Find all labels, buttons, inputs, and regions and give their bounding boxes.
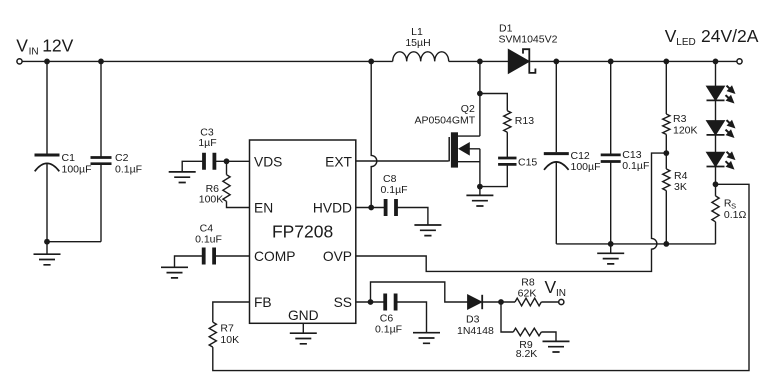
- LED D4 (top): [707, 83, 739, 107]
- svg-text:10K: 10K: [220, 334, 239, 346]
- wire: C1 bottom lead: [46, 164, 48, 242]
- svg-text:0.1µF: 0.1µF: [381, 184, 408, 196]
- terminal VLED output: [737, 59, 742, 64]
- wire: Rs top to right edge down to bottom rail: [213, 184, 749, 370]
- svg-text:8.2K: 8.2K: [516, 348, 538, 360]
- capacitor C3: [204, 153, 214, 170]
- wire: C13 bottom lead: [610, 162, 612, 244]
- wire: R7 to FB pin: [213, 302, 250, 322]
- inductor L1: [393, 52, 449, 62]
- wire: R13 to C15: [506, 132, 508, 158]
- svg-text:0.1µF: 0.1µF: [622, 160, 649, 172]
- resistor R4: [663, 169, 670, 191]
- ground (chip GND): [290, 333, 317, 344]
- svg-text:3K: 3K: [674, 181, 687, 193]
- wire: C4 to COMP pin: [214, 255, 249, 257]
- resistor R8: [515, 298, 541, 306]
- label C13 0.1µF: [622, 149, 649, 172]
- svg-text:1N4148: 1N4148: [457, 325, 494, 337]
- junction ground bus R4: [663, 241, 669, 247]
- wire: C12 bottom lead: [555, 162, 557, 244]
- ground (R9): [543, 341, 570, 352]
- svg-text:0.1µF: 0.1µF: [115, 163, 142, 175]
- svg-text:FP7208: FP7208: [272, 222, 333, 242]
- wire: VIN top rail to L1: [22, 60, 393, 62]
- wire: C6 to ground: [396, 302, 427, 333]
- wire: C3 to VDS pin: [214, 160, 249, 162]
- pin VDS: [254, 154, 282, 169]
- svg-text:SS: SS: [334, 295, 352, 310]
- svg-text:120K: 120K: [673, 125, 698, 137]
- label C6 0.1µF: [375, 312, 402, 335]
- wire: LED string: [715, 61, 717, 184]
- LED D5 (middle): [707, 117, 739, 141]
- capacitor C4: [204, 248, 214, 265]
- wire: GND pin lead: [302, 323, 304, 333]
- svg-text:L1: L1: [411, 26, 423, 38]
- terminal VIN input: [17, 59, 22, 64]
- wire: D3 to R8 node: [482, 301, 515, 303]
- wire: C1 top lead: [46, 61, 48, 153]
- terminal VIN (dimming input): [559, 299, 564, 304]
- resistor R7: [209, 322, 216, 347]
- svg-text:AP0504GMT: AP0504GMT: [414, 114, 475, 126]
- wire: L1 to D1 anode: [449, 60, 509, 62]
- wire: R8 to VIN terminal: [541, 301, 558, 303]
- svg-text:EXT: EXT: [325, 154, 352, 169]
- svg-text:0.1uF: 0.1uF: [195, 233, 222, 245]
- svg-text:C13: C13: [622, 149, 641, 161]
- junction LED cathode / Rs top: [713, 181, 719, 187]
- wire: C2 bottom lead: [100, 164, 102, 242]
- wire: R9 to ground: [541, 332, 556, 341]
- LED D6 (bottom): [707, 149, 739, 173]
- junction C2 top: [98, 59, 104, 65]
- svg-text:C15: C15: [518, 156, 537, 168]
- label R4 3K: [674, 170, 688, 193]
- wire: Rs bottom lead: [715, 222, 717, 244]
- capacitor C15: [498, 158, 516, 164]
- junction HVDD node: [368, 205, 374, 211]
- svg-text:R7: R7: [220, 323, 234, 335]
- junction C13 top: [608, 59, 614, 65]
- svg-text:R4: R4: [674, 170, 688, 182]
- ground (C4): [161, 267, 188, 278]
- ground (C6): [413, 333, 440, 344]
- diode D1 (schottky): [508, 49, 535, 73]
- wire: R8 node down to R9: [501, 302, 513, 332]
- pin EXT: [325, 154, 352, 169]
- label VIN small: [545, 277, 567, 299]
- junction input ground: [44, 239, 50, 245]
- svg-text:100K: 100K: [199, 194, 224, 206]
- ground (output): [597, 244, 624, 264]
- label C15: [518, 156, 537, 168]
- svg-text:100µF: 100µF: [62, 163, 92, 175]
- resistor Rs: [712, 196, 719, 222]
- wire: C3 to ground: [182, 161, 204, 172]
- svg-text:D3: D3: [466, 314, 480, 326]
- svg-text:V: V: [16, 36, 28, 56]
- wire: C8 to ground: [396, 208, 428, 226]
- wire: drain tap to R13: [480, 94, 507, 111]
- wire: C1-C2 ground link: [47, 241, 101, 243]
- junction Q2 source node: [477, 184, 483, 190]
- svg-text:IN: IN: [29, 47, 39, 58]
- label R9 8.2K: [516, 339, 538, 360]
- svg-text:OVP: OVP: [323, 249, 352, 264]
- svg-text:EN: EN: [254, 201, 273, 216]
- label R8 62K: [518, 276, 537, 299]
- transistor Q2 AP0504GMT: [449, 132, 480, 167]
- label D1 SVM1045V2: [499, 22, 558, 45]
- junction VDS node: [224, 158, 230, 164]
- pin COMP: [254, 249, 295, 264]
- wire: SS bypass route over C6: [371, 282, 468, 302]
- ground (C8): [414, 225, 441, 236]
- svg-text:V: V: [545, 277, 557, 297]
- wire: HVDD vertical with hop over EXT: [371, 61, 377, 207]
- label C2 0.1µF: [115, 152, 142, 175]
- wire: C15 to source node: [480, 165, 507, 187]
- pin SS: [334, 295, 352, 310]
- wire: SS pin to C6: [356, 301, 386, 303]
- svg-text:Q2: Q2: [461, 103, 475, 115]
- capacitor C2: [91, 158, 112, 164]
- ground (Q2 source): [466, 195, 493, 206]
- label R6 100K: [199, 183, 224, 206]
- wire: source ground stem: [479, 187, 481, 196]
- svg-text:C2: C2: [115, 152, 129, 164]
- label L1 15µH: [405, 26, 430, 49]
- junction R3 top: [663, 59, 669, 65]
- svg-text:1µF: 1µF: [198, 137, 216, 149]
- diode D3: [468, 295, 483, 309]
- pin HVDD: [313, 201, 352, 216]
- capacitor C12: [544, 154, 569, 170]
- label VIN 12V: [16, 36, 73, 58]
- resistor R6: [223, 175, 230, 202]
- junction SS node: [368, 299, 374, 305]
- label C12 100µF: [571, 150, 601, 173]
- svg-text:LED: LED: [676, 37, 695, 48]
- svg-text:V: V: [665, 26, 677, 46]
- label R13: [515, 115, 534, 127]
- label R7 10K: [220, 323, 239, 346]
- svg-text:GND: GND: [288, 308, 319, 323]
- svg-text:C12: C12: [571, 150, 590, 162]
- junction C12 top: [553, 59, 559, 65]
- wire: HVDD pin to C8: [356, 207, 386, 209]
- pin EN: [254, 201, 273, 216]
- svg-text:IN: IN: [556, 288, 566, 299]
- svg-text:100µF: 100µF: [571, 161, 601, 173]
- wire: Q2 drain to rail: [479, 61, 481, 136]
- svg-text:FB: FB: [254, 295, 272, 310]
- wire: C13 top lead: [610, 61, 612, 155]
- wire: D1 cathode to output terminal: [530, 60, 737, 62]
- label D3 1N4148: [457, 314, 494, 338]
- wire: Rs top lead: [715, 184, 717, 196]
- svg-text:R13: R13: [515, 115, 534, 127]
- svg-text:0.1µF: 0.1µF: [375, 323, 402, 335]
- svg-text:SVM1045V2: SVM1045V2: [499, 33, 558, 45]
- capacitor C6: [385, 294, 395, 311]
- junction ground bus C13: [608, 241, 614, 247]
- svg-text:VDS: VDS: [254, 154, 282, 169]
- wire: VDS node to R6: [226, 161, 228, 174]
- junction HVDD rail tap: [368, 59, 374, 65]
- junction LED string top: [713, 59, 719, 65]
- svg-text:R8: R8: [521, 276, 535, 288]
- pin GND: [288, 308, 319, 323]
- svg-text:62K: 62K: [518, 288, 537, 300]
- svg-text:15µH: 15µH: [405, 37, 430, 49]
- label VLED 24V/2A: [665, 26, 759, 48]
- label R3 120K: [673, 113, 698, 136]
- junction drain R13 tap: [477, 91, 483, 97]
- svg-text:HVDD: HVDD: [313, 201, 352, 216]
- wire: output ground bus: [556, 243, 715, 245]
- svg-text:12V: 12V: [42, 36, 73, 56]
- label C1 100µF: [62, 152, 92, 175]
- svg-text:R3: R3: [673, 113, 687, 125]
- svg-text:0.1Ω: 0.1Ω: [724, 209, 747, 221]
- label C4 0.1uF: [195, 223, 222, 246]
- wire: R6 to EN pin: [227, 201, 250, 207]
- label Rs 0.1Ω: [724, 197, 747, 221]
- pin FB: [254, 295, 272, 310]
- junction C1 top: [44, 59, 50, 65]
- wire: EXT pin to Q2 gate: [356, 160, 449, 162]
- wire: C12 top lead: [555, 61, 557, 152]
- ground (input caps): [34, 242, 61, 265]
- resistor R9: [513, 328, 541, 336]
- wire: R3 to R4: [665, 134, 667, 169]
- capacitor C8: [386, 199, 396, 216]
- resistor R13: [504, 111, 511, 133]
- wire: OVP to divider tap with hop over ground bus: [356, 153, 667, 271]
- label C3 1µF: [198, 127, 216, 150]
- wire: C4 to ground: [175, 256, 204, 267]
- wire: C2 top lead: [100, 61, 102, 157]
- wire: Q2 source down: [479, 149, 481, 187]
- op-amp U1 FP7208 (controller IC): [250, 140, 356, 323]
- capacitor C1: [35, 155, 60, 171]
- resistor R3: [663, 114, 670, 134]
- ground (C3): [169, 172, 196, 183]
- svg-text:24V/2A: 24V/2A: [701, 26, 759, 46]
- wire: R4 bottom lead: [665, 191, 667, 244]
- junction L1-D1-drain: [477, 59, 483, 65]
- capacitor C13: [601, 155, 621, 162]
- junction OVP divider tap: [663, 150, 669, 156]
- label C8 0.1µF: [381, 173, 408, 196]
- svg-text:COMP: COMP: [254, 249, 295, 264]
- wire: R3 top lead: [665, 61, 667, 114]
- label Q2 AP0504GMT: [414, 103, 475, 127]
- pin OVP: [323, 249, 352, 264]
- svg-text:C1: C1: [62, 152, 76, 164]
- junction D3-R8-R9 node: [498, 299, 504, 305]
